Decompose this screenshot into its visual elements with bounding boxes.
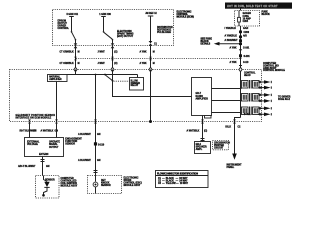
wire: T2 output bottom [259, 100, 264, 102]
splice S-210 black square [94, 142, 97, 145]
svg-text:I BLK: I BLK [225, 127, 231, 129]
T2 secondary winding hatch [254, 95, 257, 100]
label: control head name [244, 73, 256, 78]
legend header rule [155, 175, 208, 177]
connector black square at arrow [239, 42, 242, 45]
dashed note box right of GR-1 [212, 141, 228, 150]
label: audio amplifier text [196, 93, 209, 101]
svg-text:M: M [153, 63, 155, 65]
label: computer control I/O link text [263, 63, 285, 72]
svg-text:A/S: A/S [243, 35, 247, 38]
svg-text:A WHT/BLK: A WHT/BLK [186, 130, 199, 133]
grommet mark speaker line 4 at panel edge [258, 100, 262, 103]
label: to driver speakers [278, 96, 291, 101]
svg-text:CONTROL: CONTROL [244, 73, 256, 75]
sensor element stem [43, 175, 47, 181]
label: interface module right text [49, 141, 60, 149]
interface module box [24, 137, 63, 156]
splice S1 black square [239, 31, 242, 34]
svg-text:CIRCUIT: CIRCUIT [214, 148, 224, 150]
ECM module U1 dashed enclosure [53, 9, 174, 45]
pass-through mark left wire 1 at bottom boundary [28, 119, 31, 123]
svg-text:PULSE HIGH: PULSE HIGH [157, 32, 171, 34]
label: ELECTRONIC CONTROL MODULE name [177, 11, 194, 18]
svg-text:M: M [78, 52, 80, 54]
wire: T1 output bottom [259, 87, 264, 89]
svg-text:INSTRUMENT: INSTRUMENT [226, 164, 242, 166]
connector bowtie at ECM case on wire 430 [111, 43, 115, 48]
svg-text:OPERATE: OPERATE [49, 141, 60, 144]
wire: knock circuit drop [94, 121, 96, 175]
switch SW1 stem wire [71, 16, 73, 31]
wire: left sensor wire 2 to box [55, 121, 57, 137]
svg-text:MODULE (ECM): MODULE (ECM) [177, 17, 194, 19]
arrow: T3 bottom to speaker [264, 113, 271, 117]
label: electronic spark control text [123, 177, 141, 187]
svg-text:GEARSHIFT POSITION SENSOR: GEARSHIFT POSITION SENSOR [15, 114, 55, 117]
svg-text:A BLU/WHT: A BLU/WHT [78, 133, 91, 136]
connector C1 bowtie on reference wire [149, 41, 153, 46]
wire: T3 output bottom [259, 113, 264, 115]
svg-text:DETAILS: DETAILS [201, 43, 211, 46]
svg-text:TO DRIVER: TO DRIVER [278, 96, 291, 98]
connector ticks M on GR-1 wire [200, 139, 204, 141]
svg-text:A YNK/BLK: A YNK/BLK [225, 35, 238, 38]
splice S2 dot at panel boundary [149, 120, 152, 123]
switch SW1 arm [72, 32, 76, 39]
switch SW3 arm [105, 75, 112, 80]
svg-text:HEAD: HEAD [244, 74, 251, 77]
fuse block dashed box [235, 11, 260, 27]
svg-text:AMPLIFIER: AMPLIFIER [196, 98, 209, 101]
svg-text:(C): (C) [114, 63, 117, 65]
connector ticks M on module output [40, 159, 44, 161]
svg-text:C2 — BLACK — 24 WAY: C2 — BLACK — 24 WAY [158, 180, 188, 183]
connector ticks M on knock wire [93, 170, 97, 172]
ground blob G1 [42, 194, 45, 197]
svg-text:CONTROL: CONTROL [58, 28, 70, 30]
arrow: T1 bottom to speaker [264, 86, 271, 90]
svg-text:J WHT: J WHT [98, 63, 106, 65]
transformer T1 secondary box [253, 81, 260, 89]
svg-text:NATURAL: NATURAL [49, 76, 61, 79]
svg-text:(C): (C) [204, 131, 207, 133]
label: gearshift sensor interface text [15, 114, 55, 120]
label: fuse block name [262, 12, 271, 17]
label: ECM internal function text [58, 21, 70, 31]
svg-text:GN: GN [46, 166, 50, 168]
svg-text:HOT IN RUN, BULB TEST OR START: HOT IN RUN, BULB TEST OR START [227, 5, 278, 8]
wire: T1 output top [259, 81, 264, 83]
grommet mark wire 430 at panel boundary [111, 67, 114, 71]
switch SW3 contact dot [112, 80, 114, 82]
GR-1 speaker amp box [194, 142, 210, 154]
wire: amp output channel 2 [212, 100, 242, 102]
svg-text:GAN: GAN [243, 27, 248, 30]
svg-text:5 GRN 441: 5 GRN 441 [67, 13, 79, 16]
svg-text:10 AMP: 10 AMP [243, 18, 252, 21]
wire: SW1 output down to ECM case [75, 40, 77, 43]
wire: reference pulse line inside ECM [150, 16, 152, 41]
svg-text:MODULE ASSY: MODULE ASSY [123, 184, 140, 187]
label: GR-1 speaker amp text [196, 144, 207, 151]
transformer T2 secondary box [253, 94, 260, 102]
pin P3 top contact bar [148, 15, 154, 17]
wire: knock sensor to box bottom [94, 187, 96, 194]
transformer T3 primary box [241, 107, 248, 115]
node J2 switch pivot dot [104, 74, 106, 76]
svg-text:AMPLIFIER: AMPLIFIER [49, 78, 62, 81]
svg-text:A BRN/WHT: A BRN/WHT [225, 39, 239, 42]
transformer T2 primary box [242, 94, 249, 102]
svg-text:(C): (C) [114, 52, 117, 54]
wire: T2 output top [259, 94, 264, 96]
svg-text:A YNK: A YNK [140, 62, 147, 65]
wire: amp output channel 3 [211, 112, 241, 114]
svg-text:AMPL: AMPL [196, 148, 203, 151]
label: instrument panel [226, 164, 242, 169]
wire ref segment below ECM [150, 46, 152, 70]
transformer T3 secondary box [252, 107, 259, 115]
wire: amp output channel 1 [212, 88, 242, 90]
arrowhead down to instrument panel [232, 154, 237, 160]
svg-text:C3 — YELLOW — 10 WAY: C3 — YELLOW — 10 WAY [158, 182, 189, 185]
instrument panel dashed enclosure [9, 69, 261, 121]
svg-text:1 GRN 430: 1 GRN 430 [99, 13, 111, 16]
svg-text:JM REF HI: JM REF HI [145, 13, 157, 15]
pass-through mark ref wire at C100 [149, 57, 152, 60]
sensor diode triangle [44, 182, 49, 187]
T3 secondary winding hatch [254, 108, 257, 113]
svg-text:SENSOR: SENSOR [101, 185, 111, 187]
wire 430 drop to SW3 contact [112, 69, 114, 80]
svg-text:GN: GN [97, 160, 101, 162]
wire 430 segment below ECM [112, 43, 114, 69]
switch SW1 pivot contact [71, 31, 73, 33]
switch SW2 top contact bar [101, 15, 106, 17]
legend table frame [155, 171, 208, 188]
pass-through mark at bottom boundary GR-1 wire [201, 120, 204, 124]
svg-text:PANEL: PANEL [226, 166, 234, 169]
svg-text:VOLTAGE: VOLTAGE [27, 143, 38, 146]
wire: bus elbow into relay K1 top [137, 74, 139, 77]
transformer T2 core bars [250, 93, 252, 102]
wire: T3 output top [259, 107, 264, 109]
bus wire horizontal net A [57, 73, 138, 75]
wire: node J1 drop to knock circuit [94, 74, 96, 121]
note arrow tail [220, 43, 240, 45]
svg-text:(EST) OUTPUT: (EST) OUTPUT [117, 36, 134, 38]
svg-text:BLOCK: BLOCK [262, 14, 271, 16]
pass-through mark wire 430 at C100 [111, 57, 114, 60]
svg-text:S-201: S-201 [244, 56, 251, 58]
splice S2 black square [239, 36, 242, 39]
label: electronic spark timing output text [117, 31, 134, 38]
pass-through mark knock wire at bottom boundary [94, 119, 97, 123]
label: see fuse block details text [201, 38, 213, 45]
switch SW2 lower contact [112, 39, 114, 41]
wire: sensor to ground [43, 187, 47, 194]
arrow: T3 top to speaker [264, 107, 271, 111]
switch SW2 pivot contact [103, 31, 105, 33]
svg-text:EXTERN: EXTERN [39, 154, 49, 156]
tick on feed wire at C-101 [239, 49, 242, 51]
wire: header to fuse block stub [240, 9, 242, 11]
svg-text:C-101: C-101 [243, 47, 250, 49]
svg-text:EXTERNAL: EXTERNAL [27, 141, 40, 144]
label: natural amplifier text [49, 76, 62, 82]
label: interface module left text [27, 141, 40, 147]
svg-text:CT ORN/BLK: CT ORN/BLK [60, 63, 75, 65]
svg-text:FUSE: FUSE [243, 16, 250, 18]
fuse F1 body [238, 17, 241, 22]
fuse F1 element [238, 11, 240, 26]
svg-text:GR-7: GR-7 [196, 93, 202, 95]
grommet mark speaker line 6 at panel edge [258, 113, 262, 116]
svg-text:CT ORN/BLK: CT ORN/BLK [60, 52, 75, 54]
svg-text:MODULE ASSY: MODULE ASSY [60, 184, 77, 187]
svg-text:RADIO: RADIO [196, 95, 204, 98]
svg-text:C-1D: C-1D [243, 62, 249, 64]
svg-text:A YNK: A YNK [140, 51, 147, 54]
sensor diode bar [44, 186, 49, 188]
svg-text:C1 — BLACK — 32 WAY: C1 — BLACK — 32 WAY [158, 177, 188, 180]
wire 441 segment below ECM [75, 43, 77, 70]
splice S-201 black square [239, 54, 242, 57]
wire: amplifier feed from SW3 down and right [113, 81, 192, 97]
svg-text:M: M [78, 63, 80, 65]
pass-through mark wire 441 at C100 [74, 57, 77, 60]
switch SW1 top contact bar [69, 15, 74, 17]
T1 secondary winding hatch [254, 82, 257, 87]
mechanical link dashed to relay K1 [114, 80, 130, 82]
amplifier mounting tab [204, 116, 211, 119]
knock sensor dot [94, 183, 96, 185]
audio amplifier U2 box [191, 78, 211, 116]
relay K1 box [130, 77, 144, 90]
pass-through mark left wire 2 at bottom boundary [55, 119, 58, 123]
arrow: T2 top to speaker [264, 93, 271, 97]
wire: feed elbow to instrument panel drop [234, 118, 240, 154]
note arrow to fuse details [214, 42, 220, 46]
label: note box text [214, 142, 230, 150]
wire 441 drop to bus elbow [75, 69, 77, 74]
splice black square row3 [239, 39, 242, 42]
label: relay K1 text [131, 80, 141, 87]
svg-text:GN: GN [54, 130, 58, 132]
svg-text:A YNK: A YNK [230, 46, 237, 49]
wire: left sensor wire 1 to box [28, 121, 30, 137]
transformer T1 core bars [250, 80, 252, 89]
label: distributor reference pulse text [157, 27, 173, 34]
grommet mark speaker line 1 at panel edge [258, 81, 262, 84]
wire: amp output to GR-1 speaker amp [201, 116, 203, 142]
svg-text:A/D-T BLU/WHT: A/D-T BLU/WHT [18, 165, 36, 168]
wire: SW2 output down to ECM case [112, 40, 114, 43]
grommet mark speaker line 2 at panel edge [258, 86, 262, 89]
arrow: T2 bottom to speaker [264, 99, 271, 103]
T2 primary winding hatch [243, 95, 246, 100]
label: engagement function sensor text [65, 137, 82, 145]
T1 primary winding hatch [243, 82, 246, 87]
svg-text:B YEL: B YEL [244, 114, 251, 116]
switch SW1 lower contact [75, 39, 77, 41]
grommet mark speaker line 3 at panel edge [258, 94, 262, 97]
svg-text:C204: C204 [243, 20, 249, 23]
power feed wire from fuse [239, 26, 241, 118]
svg-text:SIGNAL: SIGNAL [49, 143, 58, 146]
knock sensor ring [93, 182, 98, 187]
svg-text:RELAY: RELAY [131, 84, 139, 87]
svg-text:OUTPUT: OUTPUT [49, 147, 59, 149]
svg-text:A BLU/WHT: A BLU/WHT [78, 159, 91, 162]
grommet mark ref wire at panel boundary [149, 67, 152, 71]
label: computer controlled coil ignition text [60, 178, 77, 188]
black header bar: hot in run bulb test or start [225, 3, 292, 9]
label: fuse text [243, 12, 252, 23]
transformer T1 primary box [242, 81, 249, 89]
svg-text:PAGE 8A-2: PAGE 8A-2 [278, 98, 291, 101]
knock sensor element stem [94, 175, 96, 181]
svg-text:J WHT: J WHT [98, 52, 106, 54]
connector strip dashed line C100 [76, 57, 242, 59]
svg-text:I YNK/BLK: I YNK/BLK [225, 28, 237, 30]
connector bowtie at ECM case on wire 441 [74, 43, 78, 48]
svg-text:A WHT/BLK: A WHT/BLK [40, 129, 53, 132]
svg-text:GN: GN [97, 134, 101, 136]
switch SW2 stem wire [103, 16, 105, 31]
svg-text:CONTROL MODULE: CONTROL MODULE [263, 70, 285, 72]
pass-through mark at bottom boundary IP wire [233, 120, 236, 124]
ignition module dashed box [35, 175, 59, 198]
node J1 junction dot [95, 74, 97, 76]
wire: module output down [41, 156, 43, 175]
arrow: T1 top to speaker [264, 80, 271, 84]
svg-text:GN: GN [33, 130, 37, 132]
T3 primary winding hatch [243, 108, 246, 113]
tick on feed wire at C-1D [239, 65, 242, 67]
svg-text:GAGES: GAGES [243, 12, 252, 15]
transformer T3 core bars [249, 107, 251, 116]
wire: ref wire drop to splice [149, 70, 151, 122]
grommet mark feed wire at panel boundary [239, 67, 242, 71]
label: knock sensor text inside [101, 180, 111, 187]
svg-text:C200: C200 [244, 32, 250, 34]
component box: natural amplifier [48, 74, 68, 81]
svg-text:INTERFACE ON ECM MODULE: INTERFACE ON ECM MODULE [15, 116, 51, 119]
svg-text:S-210: S-210 [98, 144, 105, 146]
svg-text:A YNK: A YNK [230, 61, 237, 64]
svg-text:M: M [153, 52, 155, 54]
switch SW2 arm [104, 32, 113, 39]
knock sensor dashed box [87, 175, 121, 193]
grommet mark wire 441 at panel boundary [74, 67, 77, 71]
svg-text:SENSOR: SENSOR [65, 143, 75, 145]
wire: natural amplifier output drop [55, 81, 57, 121]
grommet mark speaker line 5 at panel edge [258, 107, 262, 110]
